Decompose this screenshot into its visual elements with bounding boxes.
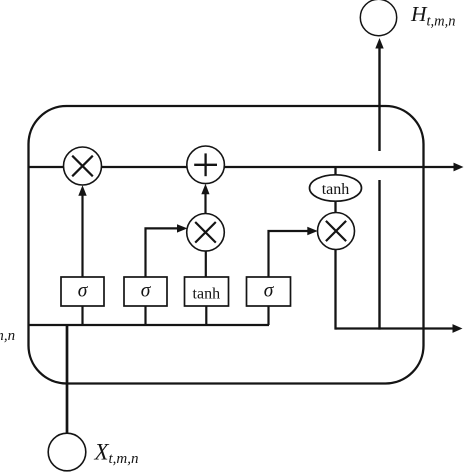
wire cell-state line C (y=167) with arrow out right [29,163,464,172]
adder U3 (circle with plus on cell line) [187,146,225,184]
svg-text:σ: σ [141,281,152,302]
wire sigma box 4 up then right arrow into multiplier U5 [269,227,318,277]
wire input line (y=325) from left edge [29,324,269,326]
svg-text:m,n: m,n [0,328,15,344]
node X input circle [48,433,86,471]
wire sigma box 2 up then right arrow into multiplier U4 [146,224,188,277]
svg-text:tanh: tanh [322,181,350,198]
wire output line (y=328.5) with arrow out right [336,324,463,333]
wire tanh ellipse top stub [334,167,336,176]
svg-text:σ: σ [78,281,89,302]
svg-text:X: X [94,440,110,465]
wire sigma box 2 leg down [144,306,146,325]
sigma box 1 [61,277,104,306]
sigma box 2 [124,277,167,306]
wire input X vertical line [66,325,69,434]
wire sigma box 1 up arrow into multiplier U2 [78,185,86,277]
multiplier U4 (middle circle with X) [187,214,225,252]
wire tanh box 3 up to multiplier U4 [205,250,207,277]
wire multiplier U4 up arrow into adder U3 [201,184,209,214]
node H output circle [360,0,396,36]
svg-text:t,m,n: t,m,n [427,14,456,30]
wire H-tap lower segment (break at cell line crossing) [378,180,380,330]
wire sigma box 4 leg down [267,306,269,325]
svg-text:σ: σ [264,281,275,302]
wire sigma box 1 leg down [81,306,83,325]
multiplier U2 (circle with X on cell line) [64,147,102,185]
sigma box 4 [247,277,291,306]
wire tanh ellipse bottom stub [334,200,336,214]
wire from multiplier U5 down to output line [334,248,336,330]
svg-text:H: H [410,2,428,26]
svg-text:tanh: tanh [193,286,221,303]
wire tanh box leg down [205,306,207,325]
label H_t,m,n [410,2,456,30]
LSTM cell body rounded rectangle [29,106,424,384]
label X_t,m,n [94,440,139,468]
tanh ellipse [310,175,362,201]
svg-text:t,m,n: t,m,n [109,451,139,467]
tanh box 3 [185,277,229,306]
multiplier U5 (right circle with X) [318,213,355,250]
wire H-tap upper segment with arrow to H circle [375,38,383,151]
